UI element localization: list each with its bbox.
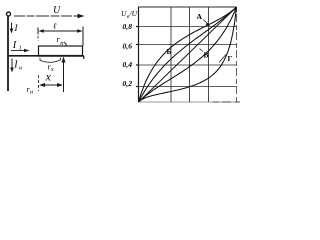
terminal (input) top-left (7, 12, 11, 16)
svg-text:0,2: 0,2 (123, 80, 133, 88)
wiper (slider) arrow (63, 61, 65, 92)
grid verticals (170, 7, 172, 102)
y axis ticks (136, 27, 139, 87)
svg-text:0,8: 0,8 (123, 23, 133, 31)
svg-text:Б: Б (167, 47, 172, 56)
svg-text:В: В (204, 51, 209, 60)
voltage arrow U (top wire) (14, 15, 80, 17)
svg-text:/U: /U (129, 9, 138, 18)
right border (236, 7, 238, 102)
wire to potentiometer (8, 55, 38, 57)
svg-text:А: А (197, 12, 203, 21)
svg-text:U: U (53, 5, 61, 16)
top border (139, 6, 237, 8)
grid horizontals (139, 26, 237, 28)
load current arrow In (11, 59, 13, 70)
current arrow I1 (11, 50, 26, 52)
svg-text:I: I (13, 60, 18, 71)
svg-text:I: I (12, 40, 17, 51)
dimension l (winding length) (37, 28, 39, 35)
svg-text:0,4: 0,4 (123, 61, 133, 69)
curve G (lower outer characteristic) (139, 7, 237, 102)
svg-text:н: н (30, 90, 33, 96)
svg-text:x: x (45, 72, 52, 84)
dimension x (wiper position) (38, 75, 40, 91)
wire left conductor (7, 17, 9, 92)
current arrow I (11, 23, 13, 32)
svg-text:н: н (19, 65, 22, 71)
straight characteristic (no load) (139, 7, 237, 102)
y axis (138, 7, 140, 103)
curve B (upper inner characteristic) (139, 7, 237, 102)
svg-text:0,6: 0,6 (123, 43, 133, 51)
curve V (lower inner characteristic) (139, 7, 237, 102)
svg-text:Г: Г (228, 54, 233, 63)
potentiometer RP (resistor box) (39, 46, 83, 56)
curve A (upper outer characteristic) (139, 7, 237, 102)
section rx bracket (40, 58, 61, 63)
x axis (139, 101, 237, 103)
svg-text:п: п (60, 40, 63, 47)
